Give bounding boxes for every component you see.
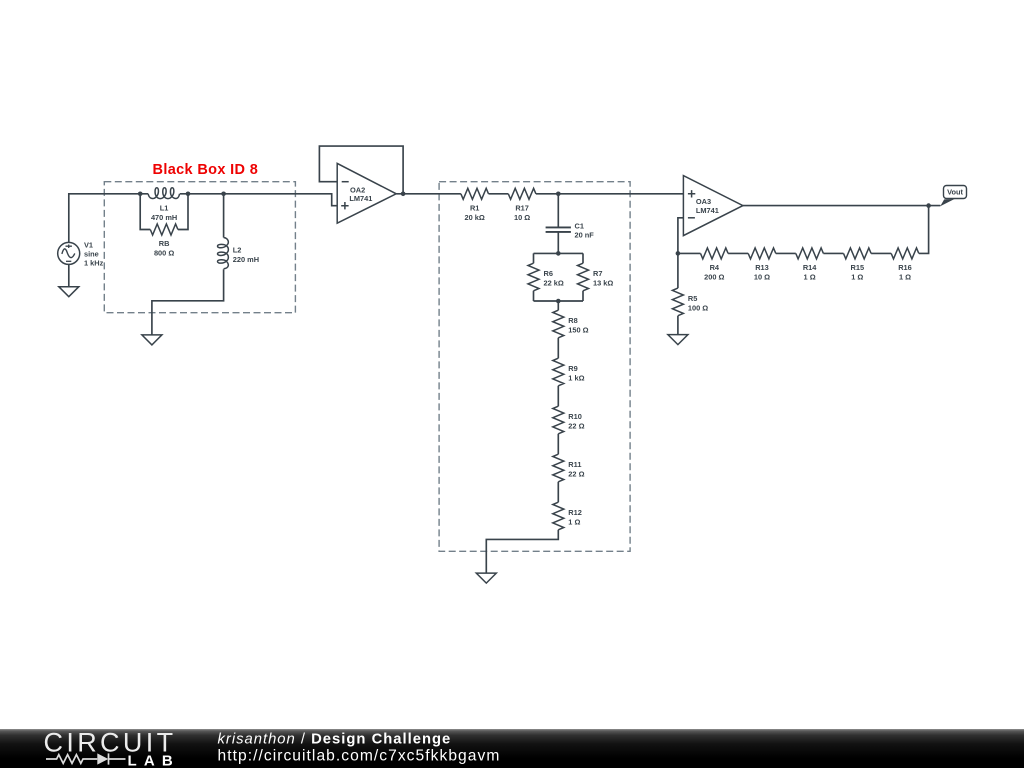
- wire: R1 to R17: [489, 193, 509, 195]
- middle network dashed boundary: [439, 182, 630, 552]
- CircuitLab logo resistor-diode glyph: [46, 753, 126, 764]
- resistor R6 22 kOhm: [528, 263, 564, 291]
- ground under V1: [59, 287, 79, 297]
- svg-text:1 Ω: 1 Ω: [804, 272, 816, 281]
- node: L1 right junction: [186, 192, 191, 197]
- wire: parallel branch legs for RB: [140, 194, 188, 230]
- node: L2 top junction: [221, 192, 226, 197]
- wire: V1 bottom to ground: [68, 264, 70, 287]
- svg-text:R8: R8: [568, 316, 577, 325]
- wire: OA3 output to Vout: [743, 205, 941, 207]
- wire: junction down to C1: [557, 194, 559, 228]
- svg-text:C1: C1: [575, 221, 584, 230]
- svg-text:20 nF: 20 nF: [575, 230, 595, 239]
- svg-text:R13: R13: [755, 263, 769, 272]
- capacitor C1 20 nF: [546, 221, 595, 239]
- resistor R12 1 Ohm: [553, 502, 582, 530]
- resistor R14 1 Ohm: [796, 248, 824, 282]
- node: OA2 output junction: [401, 192, 406, 197]
- svg-text:1 Ω: 1 Ω: [851, 272, 863, 281]
- svg-text:http://circuitlab.com/c7xc5fkk: http://circuitlab.com/c7xc5fkkbgavm: [218, 747, 501, 764]
- svg-text:LM741: LM741: [349, 194, 372, 203]
- voltage source V1 (sine 1 kHz): [58, 241, 104, 268]
- svg-text:R1: R1: [470, 203, 479, 212]
- svg-text:R17: R17: [515, 203, 529, 212]
- resistor R1 20 kOhm: [461, 188, 489, 222]
- svg-text:10 Ω: 10 Ω: [754, 272, 770, 281]
- resistor R10 22 Ohm: [553, 406, 585, 434]
- resistor R7 13 kOhm: [578, 263, 614, 291]
- node: R6/R7 bottom junction: [556, 299, 561, 304]
- svg-text:20 kΩ: 20 kΩ: [465, 213, 485, 222]
- svg-text:1 kΩ: 1 kΩ: [568, 374, 584, 383]
- svg-text:R10: R10: [568, 412, 582, 421]
- svg-text:Black Box ID 8: Black Box ID 8: [153, 162, 259, 178]
- svg-text:R12: R12: [568, 508, 582, 517]
- ground inside black box: [142, 335, 162, 345]
- svg-text:LM741: LM741: [696, 206, 719, 215]
- svg-text:V1: V1: [84, 241, 93, 250]
- wire: series chain connecting segments: [486, 301, 558, 573]
- svg-text:RB: RB: [159, 239, 170, 248]
- node: feedback divider node: [676, 251, 681, 256]
- wire: OA2 feedback loop box (output to inverting input): [319, 146, 403, 194]
- resistor R17 10 Ohm: [508, 188, 536, 222]
- svg-text:150 Ω: 150 Ω: [568, 326, 588, 335]
- wire: OA2 output: [396, 193, 461, 195]
- svg-text:R7: R7: [593, 269, 602, 278]
- wire: feedback node down through R5 to ground: [677, 253, 679, 334]
- svg-text:L1: L1: [160, 203, 169, 212]
- svg-text:R5: R5: [688, 294, 697, 303]
- svg-text:1 kHz: 1 kHz: [84, 259, 104, 268]
- svg-text:200 Ω: 200 Ω: [704, 272, 724, 281]
- wire: parallel rails for R6 and R7: [534, 253, 584, 301]
- svg-text:22 kΩ: 22 kΩ: [544, 279, 564, 288]
- svg-text:R11: R11: [568, 460, 581, 469]
- ground under R5: [668, 335, 688, 345]
- node: output junction: [926, 203, 931, 208]
- wire: R17 to OA3 noninverting input: [536, 193, 684, 195]
- ground under middle network: [476, 573, 496, 583]
- wire: junction down to L2: [223, 194, 225, 238]
- black box dashed boundary: [104, 182, 295, 313]
- svg-text:R9: R9: [568, 364, 577, 373]
- svg-text:sine: sine: [84, 250, 99, 259]
- svg-text:R4: R4: [710, 263, 720, 272]
- op-amp OA3 LM741: [683, 176, 743, 236]
- resistor R5 100 Ohm: [672, 288, 708, 316]
- wire: feedback chain connecting segments: [678, 252, 891, 254]
- wire: V1 top to OA2 noninverting input (main signal): [69, 194, 337, 243]
- node flag Vout: [940, 186, 966, 207]
- svg-text:R14: R14: [803, 263, 817, 272]
- resistor R16 1 Ohm: [891, 248, 919, 282]
- svg-text:OA3: OA3: [696, 197, 711, 206]
- inductor L1 470 mH: [148, 188, 179, 222]
- svg-text:krisanthon / Design Challenge: krisanthon / Design Challenge: [218, 732, 452, 748]
- node: L1 left junction: [138, 192, 143, 197]
- svg-text:22 Ω: 22 Ω: [568, 470, 584, 479]
- svg-text:100 Ω: 100 Ω: [688, 303, 708, 312]
- svg-text:10 Ω: 10 Ω: [514, 213, 530, 222]
- wire: L2 bottom to black-box ground: [152, 269, 224, 335]
- svg-text:R6: R6: [544, 269, 553, 278]
- svg-text:1 Ω: 1 Ω: [899, 272, 911, 281]
- svg-text:L2: L2: [233, 246, 242, 255]
- op-amp OA2 LM741: [337, 163, 396, 223]
- resistor R9 1 kOhm: [553, 358, 585, 386]
- resistor R15 1 Ohm: [844, 248, 872, 282]
- resistor R4 200 Ohm: [701, 248, 729, 282]
- svg-text:R16: R16: [898, 263, 912, 272]
- svg-text:470 mH: 470 mH: [151, 213, 177, 222]
- resistor R13 10 Ohm: [748, 248, 776, 282]
- wire: OA3 inverting input down to feedback node: [678, 218, 684, 254]
- resistor R11 22 Ohm: [553, 454, 585, 482]
- node: C1 top junction: [556, 192, 561, 197]
- svg-text:22 Ω: 22 Ω: [568, 422, 584, 431]
- svg-text:220 mH: 220 mH: [233, 255, 259, 264]
- svg-text:13 kΩ: 13 kΩ: [593, 279, 613, 288]
- svg-text:Vout: Vout: [947, 188, 963, 197]
- svg-text:1 Ω: 1 Ω: [568, 518, 580, 527]
- inductor L2 220 mH: [218, 238, 260, 269]
- resistor RB 800 Ohm: [150, 224, 178, 258]
- wire: feedback riser from R16 to output: [919, 206, 929, 254]
- resistor R8 150 Ohm: [553, 310, 589, 338]
- node: R6/R7 top junction: [556, 251, 561, 256]
- svg-text:800 Ω: 800 Ω: [154, 249, 174, 258]
- svg-text:R15: R15: [851, 263, 865, 272]
- wire: C1 bottom to R6/R7 top junction: [557, 232, 559, 254]
- svg-text:LAB: LAB: [128, 752, 180, 768]
